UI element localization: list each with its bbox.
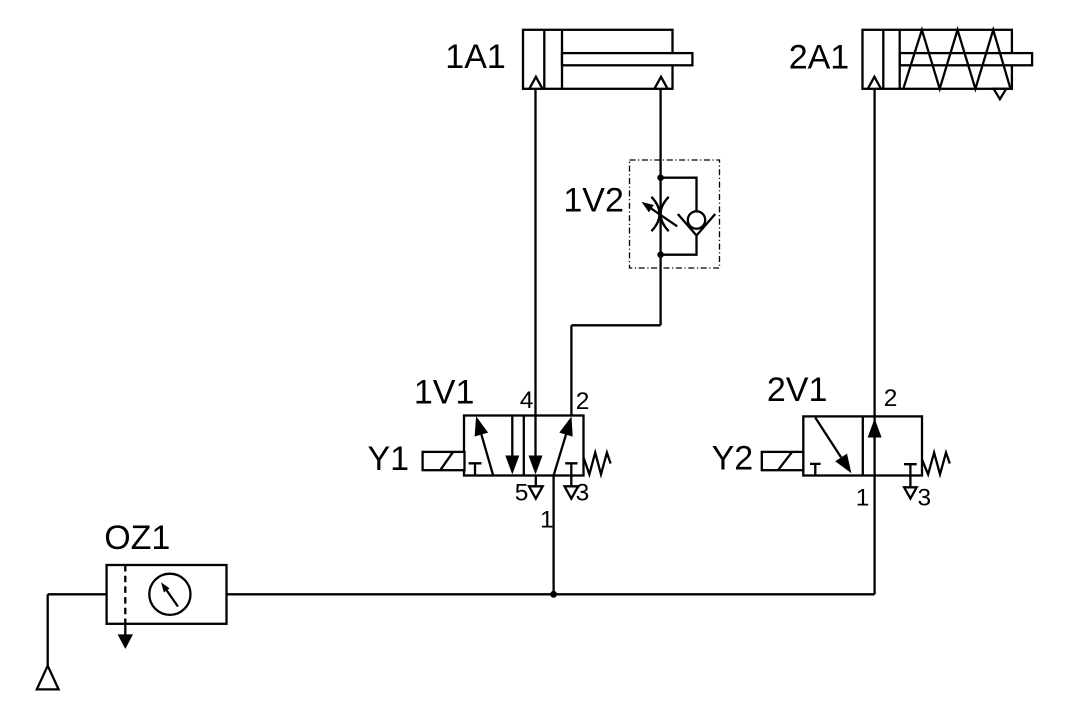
svg-text:3: 3 — [576, 480, 590, 507]
1V2 bypass bottom — [661, 236, 697, 255]
wire jog horizontal — [571, 324, 660, 326]
cylinder 2A1 exhaust vent — [994, 89, 1007, 99]
cylinder 2A1 piston — [882, 30, 884, 89]
flow control 1V2 frame — [630, 160, 720, 268]
OZ1 drain arrow — [124, 624, 126, 637]
wire 2V1 port 1 riser — [873, 476, 875, 595]
valve 1V1 divider — [523, 416, 525, 476]
cylinder 1A1 piston rod — [562, 53, 692, 65]
2V1 return spring — [922, 453, 950, 475]
svg-text:1V2: 1V2 — [563, 182, 624, 220]
1V1 left position arrow 2-3 — [511, 416, 513, 457]
cylinder 1A1 body — [523, 30, 673, 89]
svg-text:Y2: Y2 — [712, 439, 754, 477]
cylinder 2A1 body — [863, 30, 1012, 89]
1V2 bypass top — [661, 178, 697, 212]
wire OZ1 inlet — [48, 593, 107, 595]
cylinder 2A1 return spring — [903, 30, 1010, 89]
svg-text:2: 2 — [884, 385, 898, 412]
wire 2A1 port to 2V1 port 2 — [873, 89, 875, 417]
1V2 adjustment arrow — [651, 209, 677, 227]
svg-text:2: 2 — [576, 388, 590, 415]
wire 1V1 port 1 to supply — [552, 476, 554, 595]
OZ1 gauge needle — [167, 590, 178, 606]
1V1 exhaust port 5 — [535, 476, 537, 487]
OZ1 pressure gauge — [149, 574, 190, 615]
1V2 node bottom — [657, 251, 664, 258]
svg-text:5: 5 — [515, 480, 529, 507]
cylinder 1A1 left port — [529, 77, 542, 89]
OZ1 filter line — [124, 565, 126, 624]
svg-text:4: 4 — [520, 387, 534, 414]
valve 2V1 body — [803, 416, 922, 475]
svg-text:2A1: 2A1 — [789, 38, 850, 76]
2V1 left position arrow 2-3 — [815, 418, 841, 458]
svg-text:OZ1: OZ1 — [104, 519, 170, 557]
svg-text:1V1: 1V1 — [414, 374, 475, 412]
1V2 node top — [657, 174, 664, 181]
1V1 left position blocked port — [469, 463, 482, 475]
valve 2V1 divider — [862, 416, 864, 475]
2V1 left position blocked port — [810, 464, 821, 476]
1V1 left position arrow 1-4 — [481, 435, 493, 476]
wire 1A1 left port to 1V1 port 4 — [534, 89, 536, 416]
2V1 exhaust port 3 — [909, 476, 911, 488]
wire main supply line — [227, 593, 875, 595]
1V2 throttle arcs — [651, 197, 659, 231]
1V2 check valve ball — [688, 211, 705, 228]
solenoid Y2 — [762, 452, 804, 470]
svg-text:1: 1 — [856, 485, 870, 512]
svg-text:1: 1 — [540, 506, 554, 533]
svg-text:Y1: Y1 — [368, 440, 410, 478]
wire jog down to 1V1 port 2 — [570, 325, 572, 415]
2V1 right position blocked port — [904, 464, 917, 475]
cylinder 2A1 left port — [868, 77, 881, 89]
1V1 exhaust port 3 — [570, 476, 572, 487]
solenoid Y1 — [423, 452, 465, 470]
service unit OZ1 body — [107, 565, 227, 624]
1V1 right position blocked port — [565, 463, 577, 475]
svg-text:2V1: 2V1 — [767, 371, 828, 409]
junction node — [550, 591, 557, 598]
wire 1A1 right port through 1V2 — [659, 89, 661, 325]
cylinder 1A1 piston — [543, 30, 545, 89]
valve 1V1 body — [464, 416, 584, 476]
1V1 right position arrow 1-2 — [554, 435, 566, 476]
1V1 right position arrow 4-5 — [534, 416, 536, 457]
1V2 check valve seat — [678, 214, 715, 236]
svg-text:3: 3 — [918, 485, 932, 512]
1V1 return spring — [584, 453, 611, 475]
2V1 right position passage 1-2 — [873, 416, 875, 475]
svg-text:1A1: 1A1 — [445, 38, 506, 76]
cylinder 1A1 right port — [654, 77, 667, 89]
compressed air source — [37, 666, 59, 690]
cylinder 2A1 piston rod — [900, 53, 1032, 65]
